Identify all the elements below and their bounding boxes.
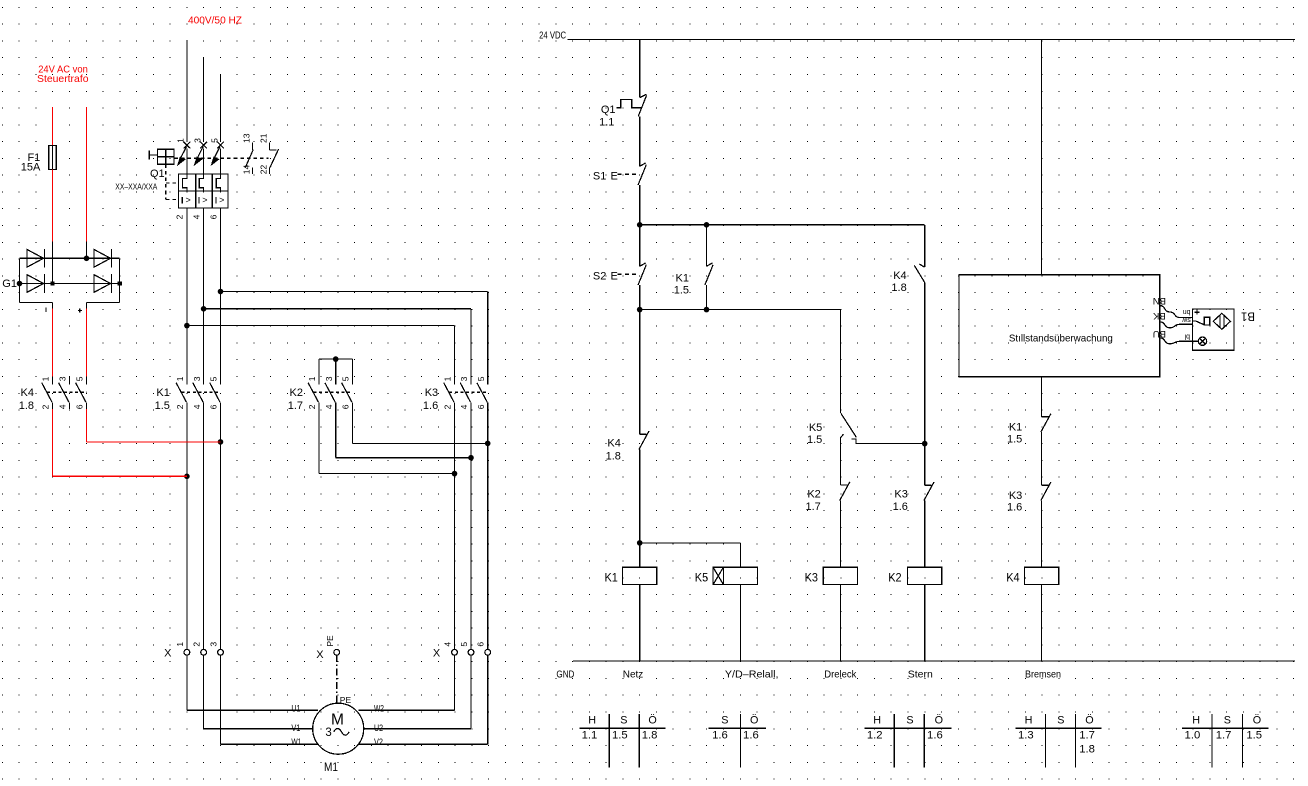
wire K3nc to K2 coil: [924, 501, 926, 568]
svg-text:1.5: 1.5: [807, 434, 822, 446]
wire K3 coil to GND: [840, 585, 842, 662]
wire L1 to K3 pole 1: [187, 325, 455, 327]
node N1: [637, 222, 643, 228]
svg-text:>: >: [202, 195, 207, 205]
contactor K2 pole 1-2: [318, 377, 320, 385]
contact K2 1.7 NC interlock: [841, 484, 848, 486]
wire node1 rail to Stern branch: [640, 224, 925, 226]
contact K3 1.6 NC brake: [1042, 484, 1049, 486]
node L1/K4 red tap: [184, 474, 190, 480]
rectifier G1 top rail: [20, 257, 120, 259]
breaker Q1 aux contact 21/22: [268, 143, 270, 150]
node G1 minus: [50, 281, 54, 285]
wire K2 pole4 to K3 pole4: [335, 409, 337, 458]
wire L1 feed: [186, 40, 188, 142]
node L3/K4 red tap: [218, 439, 224, 445]
svg-text:PE: PE: [325, 635, 335, 647]
svg-text:2: 2: [41, 404, 51, 409]
breaker Q1 mechanical linkage dashed line: [174, 157, 268, 159]
node G1 plus: [117, 281, 121, 285]
breaker Q1 pole contact X pin 3: [200, 142, 207, 149]
svg-text:>: >: [186, 195, 191, 205]
contact K3 1.6 NC interlock: [925, 484, 932, 486]
wire K2 pole2 to K3 pole2: [318, 409, 320, 474]
wire L1 to K1: [186, 208, 188, 377]
svg-text:1.3: 1.3: [1018, 729, 1034, 741]
node K3 pole2 junction: [452, 471, 458, 477]
svg-text:15A: 15A: [21, 162, 41, 174]
rectifier G1 mid rail: [20, 283, 120, 285]
svg-text:BN: BN: [1153, 295, 1166, 306]
svg-text:1.6: 1.6: [423, 400, 438, 412]
svg-text:K1: K1: [1009, 421, 1022, 433]
standstill monitor box: [959, 275, 1160, 377]
svg-text:M1: M1: [324, 760, 338, 774]
node G1 left: [17, 281, 23, 287]
wire K2nc to K3 coil: [840, 501, 842, 568]
terminal X3: [218, 649, 224, 655]
wire node1 to K4 contact: [924, 225, 926, 267]
wire K5 coil to GND: [739, 585, 741, 662]
xref table K4: [1182, 727, 1269, 729]
svg-text:Q1: Q1: [150, 168, 165, 180]
svg-text:1.5: 1.5: [155, 400, 170, 412]
svg-text:4: 4: [443, 642, 453, 647]
svg-text:4: 4: [324, 404, 334, 409]
proximity sensor B1 box: [1193, 309, 1235, 350]
svg-text:H: H: [1192, 715, 1200, 727]
sensor B1 proximity diamond: [1213, 313, 1230, 329]
wire node2 to K5 contact: [840, 310, 842, 413]
svg-text:Ö: Ö: [648, 715, 656, 727]
wire into G1 left: [52, 242, 54, 284]
wire box to K1 contact: [1041, 377, 1043, 417]
svg-text:1.8: 1.8: [19, 400, 34, 412]
coil K2: [908, 567, 942, 584]
wire X5 to motor U2: [470, 655, 472, 729]
sensor B1 plus pin: [1195, 311, 1200, 313]
rectifier G1 left edge: [19, 258, 21, 302]
rectifier G1 right edge: [119, 258, 121, 302]
wire X4 to motor W2: [454, 655, 456, 710]
svg-text:1.5: 1.5: [1007, 434, 1022, 446]
svg-text:13: 13: [242, 133, 252, 143]
wire K5 NC throw down: [840, 438, 842, 485]
svg-text:1: 1: [307, 376, 317, 381]
wire K4 pole2 to L1 (red): [52, 409, 54, 476]
svg-text:3: 3: [192, 138, 202, 143]
wire 24VDC to Q1 contact: [639, 40, 641, 98]
svg-text:Ö: Ö: [1085, 715, 1093, 727]
contactor K3 pole 5-6: [487, 377, 489, 385]
svg-text:5: 5: [209, 376, 219, 381]
contactor K1 pole 3-4: [203, 377, 205, 385]
wire K4nc to node3: [639, 450, 641, 543]
terminal X2: [201, 649, 207, 655]
coil K3: [823, 567, 857, 584]
svg-text:Dreleck: Dreleck: [824, 668, 857, 680]
wire K1 output to terminal X: [203, 409, 205, 650]
coil K4: [1025, 567, 1059, 584]
wire K2 coil to GND: [924, 585, 926, 662]
label G1 plus terminal: [78, 309, 82, 311]
fuse F1: [49, 145, 56, 169]
wire sensor BK: [1160, 322, 1193, 328]
node K3 pole4 junction: [468, 455, 474, 461]
svg-text:K1: K1: [676, 272, 689, 284]
svg-text:K4: K4: [607, 438, 620, 450]
svg-text:3: 3: [324, 376, 334, 381]
contactor K1 pole 1-2: [186, 377, 188, 385]
node K3 pole6 junction: [485, 441, 491, 447]
svg-text:1.5: 1.5: [612, 729, 628, 741]
xref table K1: [579, 727, 665, 729]
node N3: [637, 540, 643, 546]
wire sensor BU: [1160, 338, 1193, 344]
svg-text:S: S: [1057, 715, 1064, 727]
wire K1 output to terminal X: [220, 409, 222, 650]
wire X2 to motor V1: [203, 655, 205, 729]
svg-text:K3: K3: [894, 489, 907, 501]
svg-text:K3: K3: [1009, 490, 1022, 502]
svg-text:1.6: 1.6: [743, 729, 759, 741]
svg-text:4: 4: [459, 404, 469, 409]
wire 24V AC left (red): [52, 107, 54, 145]
svg-text:5: 5: [459, 642, 469, 647]
wire K2 pole6 to K3 pole6: [351, 409, 353, 444]
svg-text:3: 3: [459, 376, 469, 381]
svg-text:sw: sw: [1181, 316, 1191, 323]
label G1 minus terminal: [45, 307, 47, 312]
svg-text:K5: K5: [809, 422, 822, 434]
svg-text:5: 5: [209, 138, 219, 143]
svg-text:K1: K1: [156, 387, 169, 399]
svg-text:1: 1: [443, 376, 453, 381]
svg-text:3: 3: [209, 642, 219, 647]
wire S1 to node1: [639, 185, 641, 225]
coil K1: [623, 567, 657, 584]
svg-text:M: M: [331, 712, 344, 729]
svg-text:K5: K5: [695, 571, 709, 585]
sensor B1 output switch: [1193, 320, 1196, 322]
wire node4 to K3 contact: [924, 444, 926, 486]
svg-text:1.8: 1.8: [1079, 744, 1095, 756]
svg-text:1.7: 1.7: [1079, 729, 1095, 741]
wire G1+ to K4 (red): [86, 309, 88, 377]
motor M1 circle: [313, 703, 364, 754]
wire 24VDC to monitor box: [1041, 40, 1043, 275]
svg-text:S: S: [1224, 715, 1231, 727]
svg-text:1.1: 1.1: [599, 116, 614, 128]
svg-text:E: E: [611, 171, 618, 183]
svg-text:X: X: [316, 649, 324, 661]
svg-text:K3: K3: [805, 571, 819, 585]
svg-text:2: 2: [307, 404, 317, 409]
svg-text:21: 21: [258, 133, 268, 143]
svg-text:K2: K2: [888, 571, 902, 585]
wire fuse to G1 (red): [52, 169, 54, 241]
svg-text:bl: bl: [1184, 332, 1190, 339]
node N4 star: [922, 441, 928, 447]
terminal X PE: [334, 649, 340, 655]
svg-text:S: S: [721, 715, 728, 727]
svg-text:1.6: 1.6: [1007, 502, 1022, 514]
svg-text:1.8: 1.8: [606, 450, 621, 462]
contactor K4 pole 3-4: [68, 377, 70, 385]
wire GND rail: [573, 660, 1295, 662]
pushbutton S2-E: [639, 225, 641, 266]
svg-text:24 VDC: 24 VDC: [539, 29, 566, 41]
node N2 K1-aux join: [704, 307, 710, 313]
rectifier G1 bottom right: [87, 301, 120, 303]
svg-text:5: 5: [341, 376, 351, 381]
svg-text:6: 6: [476, 642, 486, 647]
svg-text:6: 6: [476, 404, 486, 409]
wire PE dash-dot: [336, 655, 338, 696]
wire 24V AC right (red): [86, 107, 88, 242]
svg-text:K4: K4: [1006, 571, 1020, 585]
svg-text:K1: K1: [605, 571, 619, 585]
svg-text:1.5: 1.5: [1246, 729, 1262, 741]
svg-text:1.1: 1.1: [582, 729, 598, 741]
contactor K1 linkage: [182, 391, 222, 393]
breaker Q1 thermal element pole 1: [183, 174, 187, 191]
breaker Q1 thermal/magnetic trip box: [178, 174, 228, 208]
wire K1 output to terminal X: [186, 409, 188, 650]
wire X6 to motor V2: [487, 655, 489, 744]
svg-text:2: 2: [175, 214, 185, 219]
svg-text:14: 14: [242, 164, 252, 174]
svg-text:1.2: 1.2: [867, 729, 883, 741]
wire K2 star bridge: [319, 358, 353, 360]
wire K1nc to K3 contact: [1041, 432, 1043, 485]
svg-text:1.6: 1.6: [893, 501, 908, 513]
contactor K3 pole 1-2: [454, 377, 456, 385]
wire into G1 right: [86, 242, 88, 259]
node L1/K3 tap: [184, 323, 190, 329]
svg-text:V1: V1: [291, 723, 300, 734]
sensor B1 indicator lamp: [1193, 340, 1199, 342]
breaker Q1 thermal element pole 3: [199, 174, 203, 191]
svg-text:Ö: Ö: [935, 715, 943, 727]
svg-text:U2: U2: [374, 723, 383, 734]
svg-text:1.8: 1.8: [891, 282, 906, 294]
node L3/K3 tap: [218, 289, 224, 295]
terminal X6: [485, 649, 491, 655]
svg-text:3: 3: [58, 376, 68, 381]
svg-text:BU: BU: [1153, 328, 1166, 339]
coil K5 timer: [713, 567, 723, 584]
wire K4 coil to GND: [1041, 585, 1043, 662]
contactor K3 linkage: [449, 391, 488, 393]
svg-text:1.6: 1.6: [927, 729, 943, 741]
svg-text:6: 6: [341, 404, 351, 409]
wire K3 output to terminal X: [487, 409, 489, 650]
svg-text:K2: K2: [807, 489, 820, 501]
contactor K4 linkage: [47, 391, 87, 393]
wire sensor BN: [1160, 306, 1193, 318]
svg-text:V2: V2: [374, 737, 383, 748]
wire L2 feed: [203, 57, 205, 142]
svg-text:bn: bn: [1183, 308, 1191, 315]
svg-text:2: 2: [192, 642, 202, 647]
svg-text:1: 1: [176, 138, 186, 143]
node L2/K3 tap: [201, 306, 207, 312]
breaker Q1 pole contact X pin 5: [217, 142, 224, 149]
contactor K1 pole 5-6: [220, 377, 222, 385]
terminal X1: [184, 649, 190, 655]
node G1 AC2: [84, 255, 90, 261]
contactor K2 pole 5-6: [351, 377, 353, 385]
svg-text:22: 22: [258, 164, 268, 174]
pushbutton S1-E: [640, 163, 646, 166]
svg-text:X: X: [164, 648, 172, 660]
svg-text:1.7: 1.7: [806, 501, 821, 513]
breaker Q1 pole contact X pin 1: [184, 142, 191, 149]
svg-text:1.6: 1.6: [712, 729, 728, 741]
wire node2 down: [639, 310, 641, 435]
svg-text:Q1: Q1: [601, 104, 616, 116]
wire L2 to K3 pole 3: [204, 308, 471, 310]
svg-text:5: 5: [75, 376, 85, 381]
contactor K3 pole 3-4: [470, 377, 472, 385]
svg-text:Netz: Netz: [623, 668, 644, 680]
wire L3 to K3 pole 5: [221, 291, 488, 293]
svg-text:6: 6: [75, 404, 85, 409]
wire X3 to motor W1: [220, 655, 222, 744]
svg-text:K3: K3: [425, 387, 438, 399]
auxiliary contact K1 1.5 (seal-in): [706, 225, 708, 266]
svg-text:W2: W2: [374, 703, 384, 714]
svg-text:>: >: [219, 195, 224, 205]
terminal X5: [468, 649, 474, 655]
contact K4 1.8 NC (left): [640, 433, 647, 435]
svg-text:1: 1: [175, 642, 185, 647]
wire S2 to node2: [639, 285, 641, 310]
wire L2 to K1: [203, 208, 205, 377]
svg-text:W1: W1: [291, 737, 301, 748]
svg-text:4: 4: [191, 214, 201, 219]
svg-text:1: 1: [41, 376, 51, 381]
wire K3 output to terminal X: [454, 409, 456, 650]
svg-text:H: H: [1025, 715, 1033, 727]
svg-text:Ö: Ö: [1253, 715, 1261, 727]
xref table K2: [1016, 727, 1102, 729]
svg-text:4: 4: [58, 404, 68, 409]
contactor K4 pole 1-2: [52, 377, 54, 385]
svg-text:XX–XXA/XXA: XX–XXA/XXA: [115, 182, 157, 192]
wire node3 to K1 coil: [639, 543, 641, 567]
breaker contact Q1 1.1: [616, 100, 641, 108]
wire X1 to motor U1: [186, 655, 188, 710]
svg-text:3: 3: [325, 727, 331, 739]
svg-text:B1: B1: [1241, 309, 1255, 321]
svg-text:S1: S1: [593, 171, 606, 183]
xref table K3: [864, 727, 951, 729]
diode G1 top-right: [94, 249, 111, 267]
svg-text:1.5: 1.5: [674, 284, 689, 296]
svg-text:G1: G1: [2, 278, 17, 290]
wire K3nc to K4 coil: [1041, 501, 1043, 568]
breaker Q1 magnetic trip I> pole 3: [198, 197, 200, 204]
breaker Q1 trip linkage dashed: [165, 164, 167, 199]
wire G1- to K4 (red): [52, 309, 54, 377]
svg-text:X: X: [433, 648, 441, 660]
node N1 K1-aux tap: [704, 222, 710, 228]
wire node2 rail to K5 branch: [640, 309, 841, 311]
svg-text:400V/50 HZ: 400V/50 HZ: [188, 15, 243, 27]
svg-text:6: 6: [208, 214, 218, 219]
svg-text:H: H: [588, 715, 596, 727]
contactor K2 pole 3-4: [335, 377, 337, 385]
svg-text:Y/D–Relall,: Y/D–Relall,: [725, 668, 779, 680]
breaker Q1 thermal element pole 5: [216, 174, 220, 191]
node N2: [637, 307, 643, 313]
svg-text:U1: U1: [291, 703, 300, 714]
diode G1 top-left: [27, 249, 44, 267]
terminal X4: [452, 649, 458, 655]
svg-text:5: 5: [476, 376, 486, 381]
wire K1 coil to GND: [639, 585, 641, 662]
wire L3 feed: [220, 74, 222, 142]
wire PE into motor: [336, 696, 338, 703]
rectifier G1 bottom left: [20, 301, 53, 303]
xref table K5: [709, 727, 766, 729]
svg-text:Ö: Ö: [750, 715, 758, 727]
wire K4 pole6 to L3 (red): [85, 409, 87, 442]
breaker Q1 magnetic trip I> pole 1: [181, 197, 183, 204]
wire K4no down: [924, 283, 926, 444]
contact K1 1.5 NC brake: [1042, 416, 1049, 418]
svg-text:S2: S2: [593, 271, 606, 283]
wire 24VDC rail: [568, 39, 1296, 41]
svg-text:Stern: Stern: [908, 668, 933, 680]
svg-text:2: 2: [443, 404, 453, 409]
svg-text:2: 2: [175, 404, 185, 409]
breaker Q1 aux contact 13/14: [252, 143, 254, 150]
diode G1 mid-left: [27, 275, 44, 293]
svg-text:K4: K4: [893, 270, 906, 282]
svg-text:1.8: 1.8: [642, 729, 658, 741]
breaker Q1 magnetic trip I> pole 5: [215, 197, 217, 204]
svg-text:1: 1: [175, 376, 185, 381]
wire K3 output to terminal X: [470, 409, 472, 650]
wire Q1 to S1: [639, 116, 641, 166]
changeover contact K5 1.5: [841, 413, 857, 437]
svg-text:S: S: [620, 715, 627, 727]
contact K4 1.8 NO (mirrored): [914, 265, 925, 282]
svg-text:K2: K2: [290, 387, 303, 399]
svg-text:3: 3: [192, 376, 202, 381]
wire node3 to K5 coil branch: [640, 542, 741, 544]
breaker Q1 manual actuator box: [158, 149, 175, 164]
svg-text:S: S: [906, 715, 913, 727]
wire L3 to K1: [220, 208, 222, 377]
contactor K2 linkage: [314, 391, 353, 393]
svg-text:H: H: [873, 715, 881, 727]
svg-text:1.0: 1.0: [1185, 729, 1201, 741]
svg-text:Bremsen: Bremsen: [1025, 668, 1061, 680]
svg-text:GND: GND: [556, 668, 574, 680]
svg-text:K4: K4: [21, 387, 34, 399]
svg-text:4: 4: [192, 404, 202, 409]
label motor tilde: [334, 728, 349, 735]
svg-text:Steuertrafo: Steuertrafo: [37, 73, 89, 85]
contactor K4 pole 5-6: [85, 377, 87, 385]
svg-text:BK: BK: [1152, 310, 1165, 321]
svg-text:1.7: 1.7: [1216, 729, 1232, 741]
node K2 star bridge: [333, 356, 339, 362]
